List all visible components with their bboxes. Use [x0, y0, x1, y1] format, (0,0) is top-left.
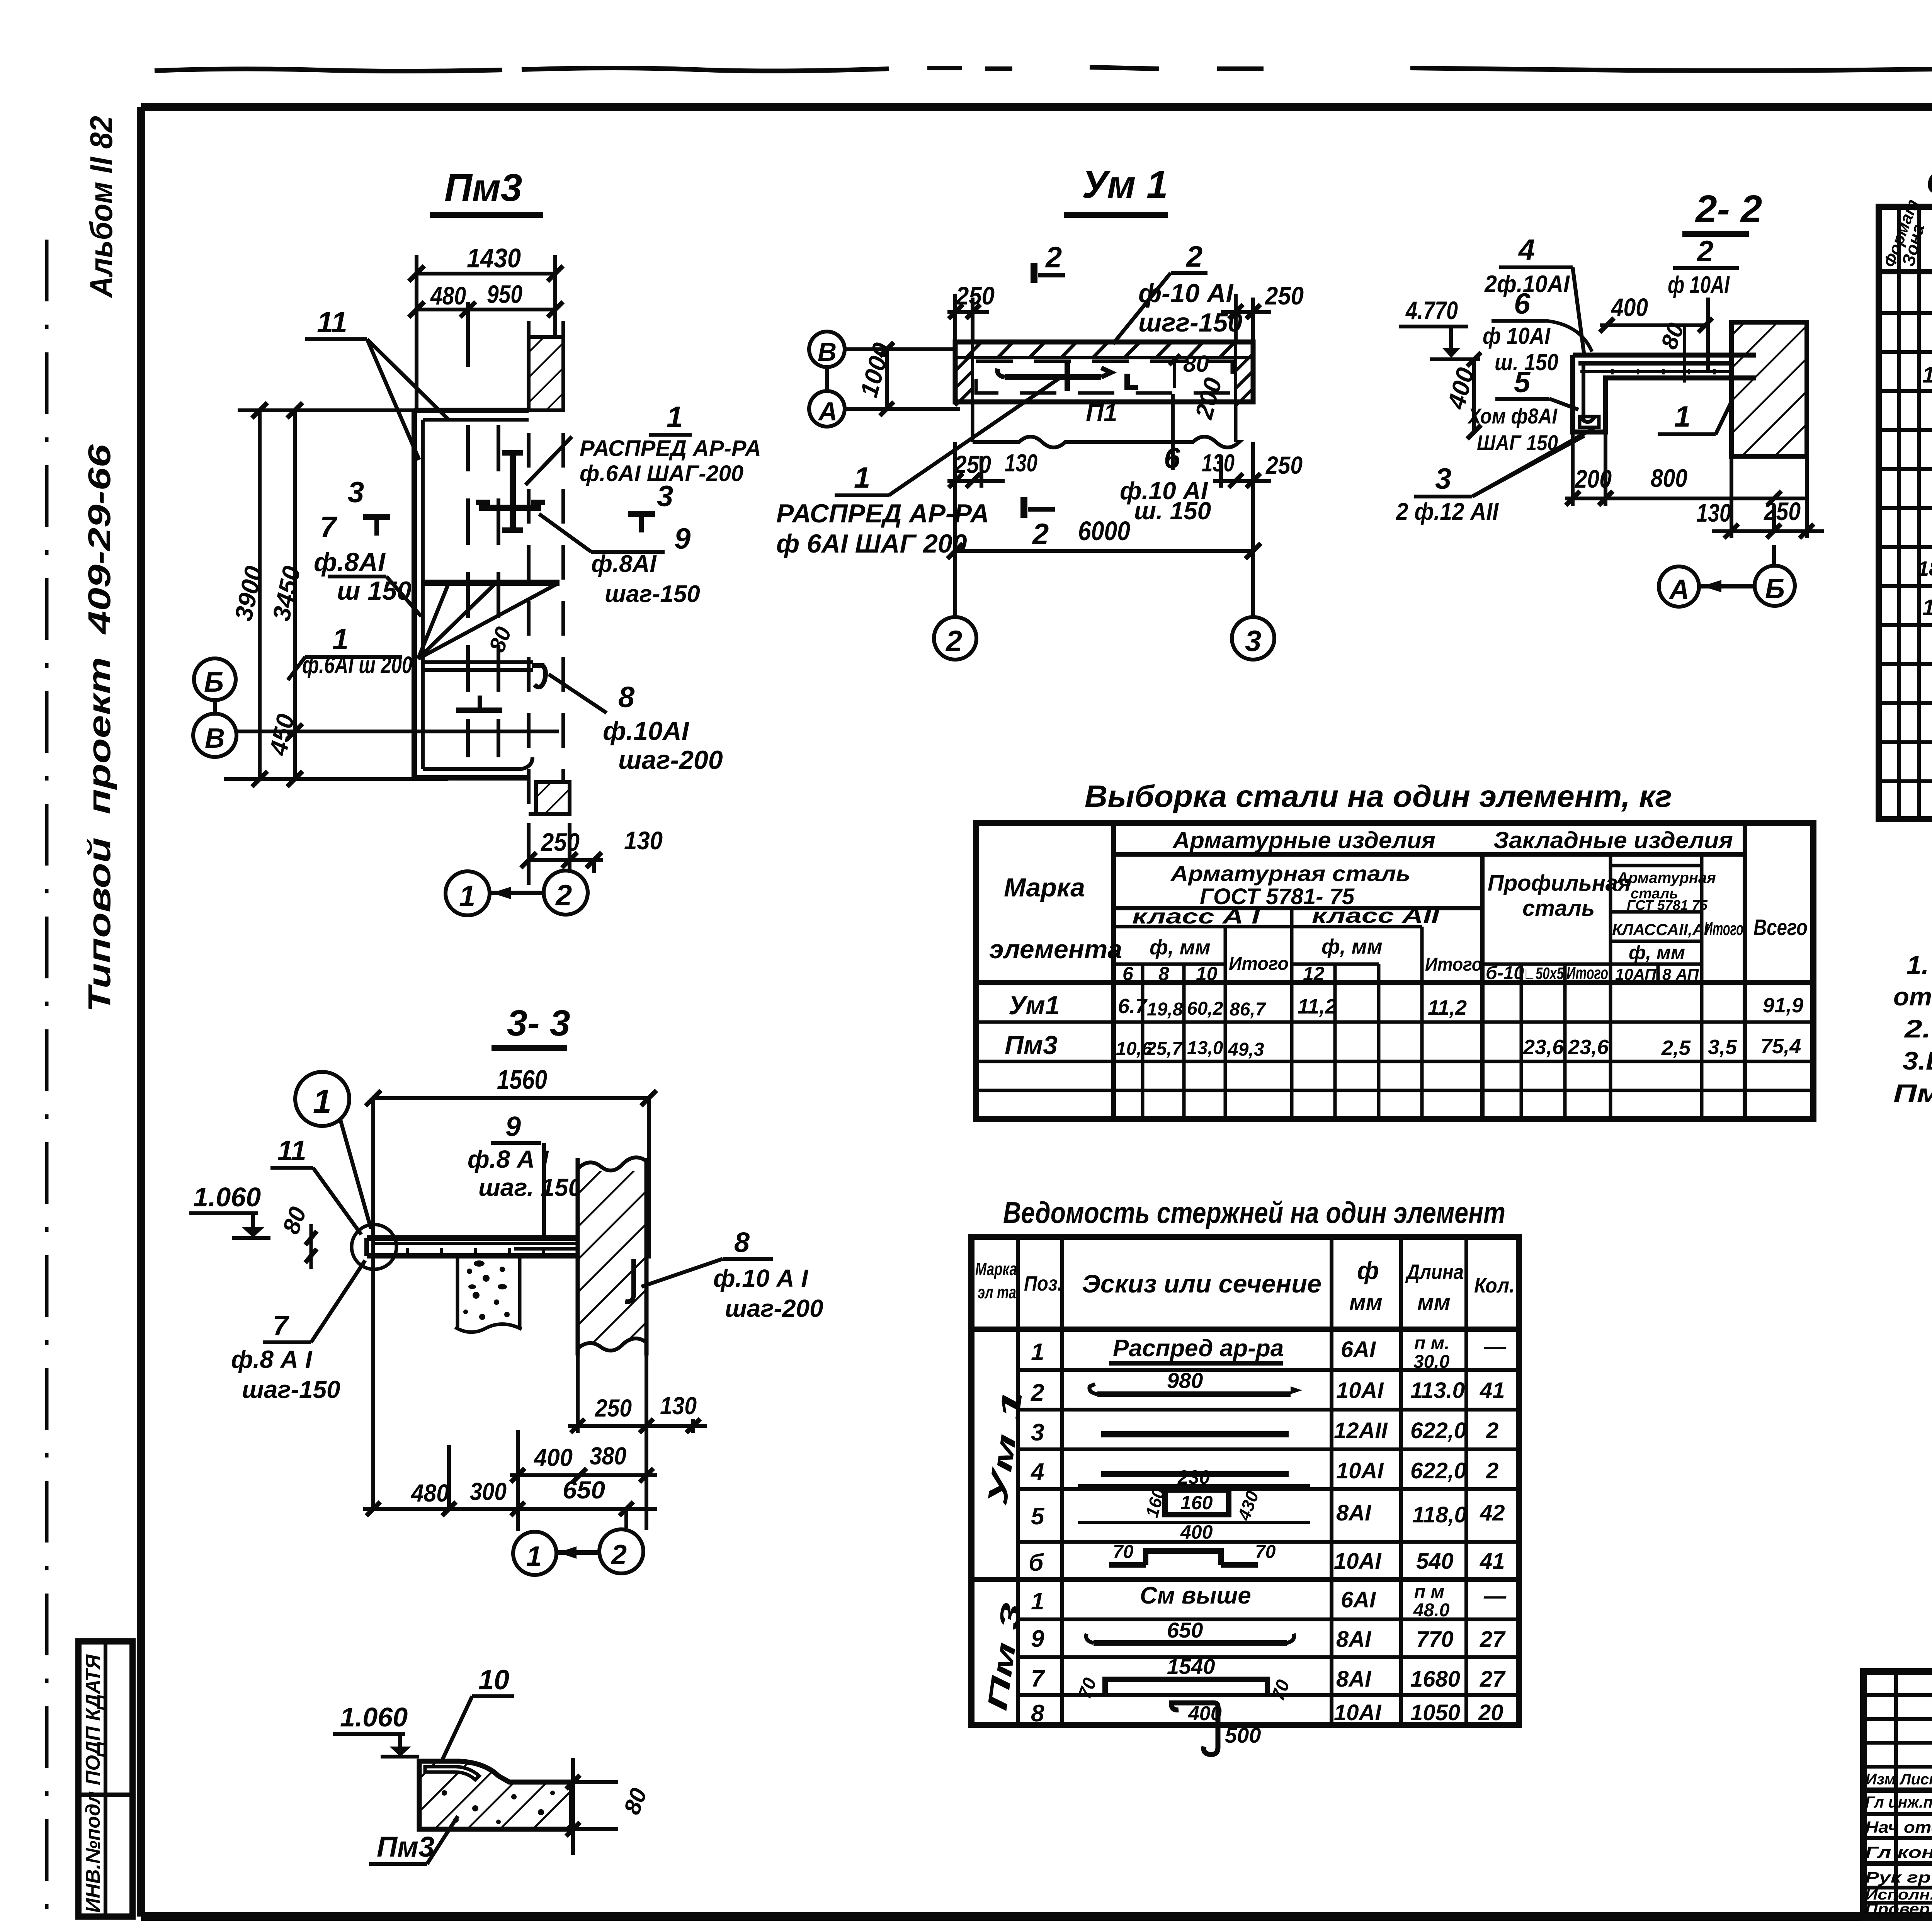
svg-text:18-9: 18-9	[1917, 557, 1932, 580]
svg-text:ф, мм: ф, мм	[1629, 942, 1685, 963]
svg-text:ИНВ.№подл: ИНВ.№подл	[82, 1791, 104, 1913]
svg-text:6: 6	[1514, 287, 1531, 320]
rebar bar with hooks	[1005, 374, 1101, 380]
svg-text:8АІ: 8АІ	[1336, 1667, 1372, 1692]
svg-text:шаг-150: шаг-150	[242, 1376, 340, 1403]
svg-text:500: 500	[1225, 1723, 1261, 1747]
svg-text:250: 250	[1763, 497, 1801, 526]
top hatch strip	[966, 342, 1235, 358]
svg-text:622,0: 622,0	[1410, 1418, 1466, 1443]
svg-text:1430: 1430	[467, 243, 521, 273]
svg-text:1. Маркировочную схему плит пе: 1. Маркировочную схему плит перекрытия н…	[1906, 951, 1932, 979]
left revision grid	[1894, 1672, 1898, 1918]
svg-text:Хом ф8АІ: Хом ф8АІ	[1467, 404, 1558, 428]
svg-text:650: 650	[563, 1476, 605, 1504]
axis circle V (Cyrillic Ve)	[193, 714, 236, 757]
svg-text:Поз.: Поз.	[1024, 1272, 1063, 1295]
svg-text:250: 250	[1264, 281, 1304, 310]
inner dashed rect	[976, 361, 1232, 393]
svg-text:8АІ: 8АІ	[1336, 1627, 1372, 1652]
data rows	[976, 980, 1813, 985]
svg-text:ф: ф	[1357, 1257, 1379, 1284]
svg-text:11: 11	[277, 1135, 306, 1166]
axis circle A	[809, 391, 845, 427]
svg-text:Пм3: Пм3	[377, 1831, 434, 1863]
svg-text:10АІ: 10АІ	[1336, 1378, 1384, 1403]
svg-text:ПОДП КДАТЯ: ПОДП КДАТЯ	[82, 1654, 104, 1785]
svg-text:770: 770	[1416, 1627, 1454, 1652]
svg-text:9: 9	[674, 522, 690, 555]
svg-text:Распред ар-ра: Распред ар-ра	[1113, 1335, 1284, 1362]
svg-text:42: 42	[1480, 1500, 1505, 1526]
svg-text:КЛАССАІІ,АІ: КЛАССАІІ,АІ	[1612, 920, 1709, 939]
svg-text:2 ф.12 АІІ: 2 ф.12 АІІ	[1396, 498, 1499, 525]
svg-text:8: 8	[1031, 1700, 1044, 1727]
svg-text:В: В	[205, 723, 225, 754]
svg-text:Всего: Всего	[1753, 915, 1808, 940]
svg-text:230: 230	[1177, 1466, 1210, 1488]
svg-text:Итого: Итого	[1425, 954, 1482, 975]
svg-text:ф.8 А І: ф.8 А І	[468, 1145, 549, 1173]
svg-text:2,5: 2,5	[1661, 1036, 1691, 1060]
svg-text:Гл кон: Гл кон	[1865, 1843, 1932, 1861]
svg-text:2: 2	[1486, 1458, 1498, 1483]
axis circles 1 2	[516, 1509, 520, 1531]
svg-text:7: 7	[273, 1310, 289, 1341]
svg-text:130: 130	[1005, 449, 1037, 477]
svg-text:5: 5	[1031, 1503, 1045, 1530]
svg-text:ф 10АІ: ф 10АІ	[1668, 272, 1730, 298]
svg-text:2: 2	[1185, 240, 1202, 273]
svg-text:сталь: сталь	[1522, 896, 1595, 921]
axis circles 2 and 3	[953, 551, 957, 618]
svg-text:мм: мм	[1417, 1290, 1451, 1315]
svg-text:480: 480	[410, 1479, 449, 1507]
svg-text:480: 480	[430, 281, 466, 310]
svg-text:7: 7	[320, 511, 338, 544]
svg-text:11,2: 11,2	[1428, 996, 1467, 1019]
svg-text:А: А	[1668, 574, 1689, 605]
svg-text:2: 2	[555, 879, 572, 912]
svg-text:1: 1	[332, 623, 349, 656]
svg-text:300: 300	[470, 1478, 507, 1505]
svg-text:2. Маркировку Пм3 см лист: 2. Маркировку Пм3 см лист КЖ-4.	[1904, 1014, 1932, 1043]
svg-text:1: 1	[459, 880, 475, 913]
mesh rebar line	[423, 580, 560, 586]
svg-text:Гл инж.пр: Гл инж.пр	[1865, 1793, 1932, 1811]
svg-text:ШАГ 150: ШАГ 150	[1477, 430, 1558, 455]
svg-text:2: 2	[1045, 241, 1062, 274]
svg-text:400: 400	[1180, 1521, 1213, 1543]
svg-text:ф 10АІ: ф 10АІ	[1483, 323, 1551, 349]
row lines	[1018, 1368, 1519, 1372]
svg-text:Арматурные изделия: Арматурные изделия	[1172, 827, 1435, 853]
axis circle B (Cyrillic Be)	[194, 658, 236, 700]
svg-text:27: 27	[1480, 1667, 1506, 1692]
svg-text:10: 10	[1922, 595, 1932, 620]
svg-text:1680: 1680	[1410, 1667, 1460, 1692]
svg-text:118,0: 118,0	[1412, 1502, 1467, 1527]
svg-text:РАСПРЕД АР-РА: РАСПРЕД АР-РА	[580, 436, 761, 461]
svg-text:1: 1	[667, 401, 683, 434]
svg-text:20: 20	[1478, 1700, 1503, 1725]
wall hatched right	[578, 1171, 646, 1345]
svg-text:1: 1	[854, 461, 870, 494]
svg-text:2: 2	[1032, 518, 1049, 551]
svg-text:класс А І: класс А І	[1132, 905, 1260, 928]
svg-text:10АІ: 10АІ	[1334, 1549, 1382, 1574]
svg-text:3: 3	[657, 480, 673, 513]
svg-text:1050: 1050	[1410, 1700, 1460, 1725]
svg-text:3: 3	[1031, 1419, 1044, 1446]
svg-text:5: 5	[1514, 366, 1531, 399]
svg-text:1: 1	[1031, 1588, 1044, 1615]
svg-text:2: 2	[611, 1539, 627, 1570]
svg-text:Кол.: Кол.	[1474, 1274, 1515, 1297]
svg-text:160: 160	[1180, 1492, 1213, 1514]
wall hatch above plan	[529, 337, 563, 410]
svg-text:380: 380	[590, 1442, 626, 1470]
svg-text:2: 2	[1696, 235, 1713, 268]
bottom-left stamp box	[78, 1641, 133, 1917]
svg-text:30,0: 30,0	[1413, 1352, 1450, 1372]
svg-text:980: 980	[1167, 1368, 1203, 1393]
svg-text:См выше: См выше	[1140, 1582, 1251, 1609]
svg-text:48.0: 48.0	[1413, 1600, 1450, 1621]
svg-text:3.Временная нагрузка на пер: 3.Временная нагрузка на перекрытие на от…	[1903, 1046, 1932, 1075]
svg-text:2: 2	[1486, 1418, 1498, 1443]
svg-text:отм 4.800 см. лист КЖ-14.: отм 4.800 см. лист КЖ-14.	[1893, 982, 1932, 1011]
slab + drop beam outline	[1573, 353, 1756, 358]
svg-text:Б: Б	[1765, 573, 1785, 604]
svg-text:1: 1	[526, 1541, 542, 1572]
svg-text:4: 4	[1518, 233, 1535, 266]
svg-text:Выборка стали на один элем: Выборка стали на один элемент, кг	[1085, 779, 1672, 813]
svg-text:Длина: Длина	[1405, 1260, 1464, 1284]
svg-text:П1: П1	[1086, 399, 1117, 427]
slab	[367, 1235, 651, 1241]
svg-text:250: 250	[540, 828, 580, 856]
axis circle V	[809, 332, 845, 367]
dim 1000 left rotated	[885, 349, 889, 409]
svg-text:3: 3	[1245, 625, 1261, 658]
svg-text:1: 1	[1674, 400, 1690, 433]
svg-text:91,9: 91,9	[1763, 994, 1803, 1017]
svg-text:—: —	[1483, 1334, 1507, 1359]
svg-text:400: 400	[533, 1444, 573, 1471]
svg-text:622,0: 622,0	[1410, 1458, 1466, 1483]
svg-text:ш. 150: ш. 150	[1134, 497, 1211, 525]
svg-text:250: 250	[1265, 451, 1303, 479]
svg-text:113.0: 113.0	[1410, 1378, 1465, 1403]
svg-text:Итого: Итого	[1704, 919, 1743, 939]
svg-text:19,8: 19,8	[1147, 999, 1183, 1020]
svg-text:ф, мм: ф, мм	[1150, 936, 1211, 959]
axis line V through plan	[238, 730, 559, 733]
svg-text:11,2: 11,2	[1298, 995, 1337, 1018]
svg-text:Спецификация элементов монолит: Спецификация элементов монолитной констр…	[1927, 165, 1932, 200]
plate outline (formwork double lines)	[414, 408, 529, 413]
svg-text:б: б	[1029, 1549, 1044, 1576]
svg-text:Пм3 принята 1000 кг/м².: Пм3 принята 1000 кг/м².	[1893, 1079, 1932, 1107]
svg-text:ф.8АІ: ф.8АІ	[314, 548, 386, 577]
svg-text:3- 3: 3- 3	[507, 1003, 570, 1044]
svg-text:2- 2: 2- 2	[1695, 187, 1762, 231]
svg-text:9: 9	[1031, 1626, 1044, 1652]
svg-text:Марка: Марка	[975, 1259, 1017, 1279]
svg-text:7: 7	[1031, 1665, 1045, 1692]
svg-text:1: 1	[1031, 1339, 1044, 1366]
svg-text:80: 80	[1183, 351, 1209, 377]
svg-text:70: 70	[1255, 1542, 1276, 1562]
svg-text:Итого: Итого	[1229, 954, 1289, 974]
svg-text:800: 800	[1651, 464, 1687, 492]
svg-text:шаг-200: шаг-200	[618, 745, 723, 775]
wall hatch below plan	[536, 782, 570, 814]
svg-text:элемента: элемента	[989, 935, 1122, 964]
svg-text:4.770: 4.770	[1405, 296, 1458, 325]
svg-text:1-6: 1-6	[1922, 362, 1932, 388]
svg-text:эл та: эл та	[978, 1282, 1016, 1302]
svg-text:мм: мм	[1349, 1290, 1383, 1315]
svg-text:25,7: 25,7	[1146, 1039, 1183, 1059]
svg-text:75,4: 75,4	[1760, 1035, 1801, 1058]
svg-text:9: 9	[505, 1111, 521, 1142]
svg-text:ф.8АІ: ф.8АІ	[591, 551, 657, 577]
svg-text:ф.8 А І: ф.8 А І	[231, 1345, 313, 1373]
svg-text:400: 400	[1611, 293, 1648, 321]
svg-text:1: 1	[313, 1083, 332, 1120]
svg-text:шаг. 150: шаг. 150	[478, 1173, 582, 1201]
svg-text:Арматурная сталь: Арматурная сталь	[1170, 861, 1410, 886]
svg-text:Нач отд: Нач отд	[1865, 1818, 1932, 1836]
svg-text:Пм3: Пм3	[444, 166, 522, 209]
svg-text:Б: Б	[204, 667, 224, 698]
svg-text:1540: 1540	[1167, 1654, 1215, 1679]
svg-text:6000: 6000	[1078, 516, 1130, 546]
svg-text:класс АІІ: класс АІІ	[1312, 904, 1440, 927]
svg-text:Марка: Марка	[1004, 873, 1085, 902]
svg-text:86,7: 86,7	[1230, 999, 1267, 1020]
svg-text:130: 130	[624, 826, 663, 855]
svg-text:400: 400	[1188, 1702, 1222, 1725]
svg-text:ф 6АІ ШАГ 200: ф 6АІ ШАГ 200	[776, 529, 967, 558]
svg-text:70: 70	[1113, 1542, 1134, 1562]
interior dashed centerlines	[466, 425, 470, 757]
svg-text:3,5: 3,5	[1708, 1036, 1737, 1059]
svg-text:130: 130	[1696, 498, 1731, 527]
svg-text:41: 41	[1480, 1549, 1505, 1574]
svg-text:8: 8	[734, 1227, 750, 1258]
svg-text:ГСТ 5781 75: ГСТ 5781 75	[1627, 897, 1708, 913]
svg-text:49,3: 49,3	[1228, 1039, 1264, 1060]
vertical subdivision lines	[1141, 964, 1145, 1119]
svg-text:п м: п м	[1414, 1582, 1444, 1602]
svg-text:Закладные изделия: Закладные изделия	[1493, 827, 1733, 853]
svg-text:23,6: 23,6	[1568, 1036, 1609, 1059]
svg-text:8АІ: 8АІ	[1336, 1500, 1372, 1526]
small T mark inside	[456, 707, 502, 713]
svg-text:540: 540	[1416, 1549, 1454, 1574]
left dimension lines	[258, 410, 262, 779]
svg-text:250: 250	[595, 1394, 632, 1422]
big detail circle 1	[295, 1072, 349, 1126]
leaders fan to mesh	[418, 584, 556, 659]
axis circles A and B	[1659, 566, 1699, 607]
dim 400 left rotated	[1472, 359, 1476, 432]
pier with concrete dots	[457, 1256, 520, 1329]
svg-text:А: А	[818, 397, 837, 426]
svg-text:3: 3	[1435, 463, 1451, 495]
svg-text:ф.10 А І: ф.10 А І	[713, 1264, 808, 1292]
svg-text:Изм: Изм	[1866, 1771, 1896, 1788]
svg-text:12АІІ: 12АІІ	[1334, 1418, 1388, 1443]
svg-text:п м.: п м.	[1414, 1333, 1450, 1354]
svg-text:1560: 1560	[497, 1065, 547, 1095]
svg-text:130: 130	[660, 1392, 697, 1420]
svg-text:шаг-200: шаг-200	[725, 1294, 823, 1322]
svg-text:60,2: 60,2	[1187, 998, 1223, 1019]
svg-text:27: 27	[1480, 1627, 1506, 1652]
left / right hatched ends	[955, 354, 973, 406]
second interior bar double line	[423, 660, 533, 664]
rebar cross item 1	[510, 453, 516, 530]
svg-text:Ум1: Ум1	[1009, 991, 1060, 1020]
section mark 2 top	[1031, 263, 1037, 283]
svg-text:11: 11	[317, 306, 347, 339]
dim 80	[571, 1758, 575, 1855]
svg-text:Альбом ІІ 82: Альбом ІІ 82	[84, 116, 119, 298]
svg-text:3: 3	[348, 476, 364, 509]
left margin dash-dot line	[45, 240, 49, 1932]
axis circles 1 and 2 bottom	[446, 871, 490, 915]
svg-text:ф, мм: ф, мм	[1321, 935, 1383, 958]
svg-text:Лист: Лист	[1899, 1771, 1932, 1788]
svg-text:ф.10АІ: ф.10АІ	[603, 716, 690, 746]
section mark 2 bottom	[1020, 497, 1027, 518]
svg-text:Пм3: Пм3	[1005, 1031, 1058, 1060]
svg-text:1.060: 1.060	[193, 1182, 261, 1212]
P1 slab below with break waves	[971, 402, 975, 442]
rebars	[1578, 361, 1750, 366]
svg-text:650: 650	[1167, 1618, 1203, 1642]
svg-text:Провер.: Провер.	[1865, 1901, 1932, 1917]
svg-text:Ум 1: Ум 1	[1082, 163, 1168, 206]
svg-text:Исполн.: Исполн.	[1865, 1887, 1932, 1903]
svg-text:6АІ: 6АІ	[1341, 1337, 1376, 1362]
svg-text:Рук гр: Рук гр	[1865, 1869, 1931, 1886]
section shape with hatch	[419, 1761, 571, 1829]
svg-text:6АІ: 6АІ	[1341, 1587, 1376, 1612]
svg-text:130: 130	[1202, 449, 1235, 477]
svg-text:10АІ: 10АІ	[1336, 1458, 1384, 1483]
svg-text:—: —	[1483, 1583, 1507, 1609]
extension verticals of top dims	[415, 255, 418, 410]
svg-text:шаг-150: шаг-150	[605, 581, 700, 607]
svg-text:В: В	[818, 337, 837, 367]
svg-text:2: 2	[1031, 1379, 1044, 1406]
svg-text:23,6: 23,6	[1523, 1036, 1564, 1059]
svg-text:6.7: 6.7	[1118, 995, 1148, 1018]
svg-text:13,0: 13,0	[1187, 1038, 1223, 1058]
svg-text:41: 41	[1480, 1378, 1505, 1403]
svg-text:950: 950	[487, 280, 522, 308]
svg-text:Эскиз или сечение: Эскиз или сечение	[1082, 1269, 1321, 1298]
svg-text:РАСПРЕД АР-РА: РАСПРЕД АР-РА	[776, 499, 989, 528]
svg-text:Типовой проект 409-29-66: Типовой проект 409-29-66	[82, 444, 117, 1012]
svg-text:1.060: 1.060	[340, 1702, 408, 1732]
wall hatched	[1731, 322, 1807, 456]
beam outline	[955, 342, 1253, 402]
svg-text:10АІ: 10АІ	[1334, 1700, 1382, 1725]
svg-text:10: 10	[478, 1665, 509, 1696]
svg-text:Ведомость стержней на один эле: Ведомость стержней на один элемент	[1003, 1196, 1505, 1230]
svg-text:4: 4	[1030, 1459, 1044, 1485]
svg-text:8: 8	[618, 681, 635, 714]
svg-text:2: 2	[945, 625, 962, 658]
